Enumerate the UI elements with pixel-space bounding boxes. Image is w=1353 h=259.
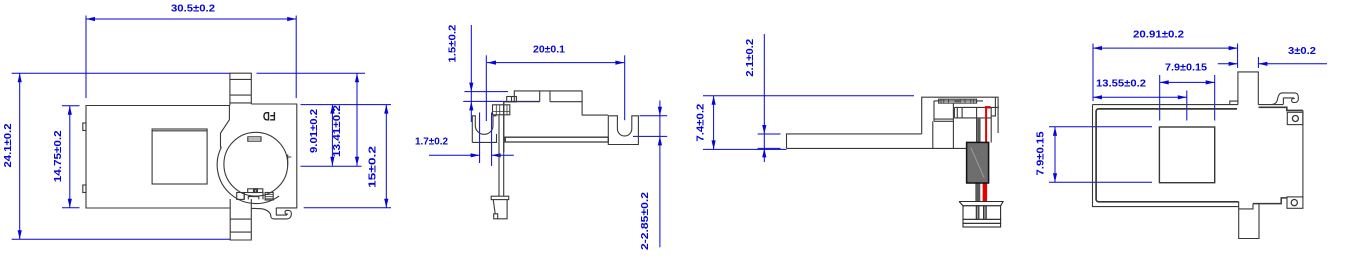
extension line bottom y239.3: [12, 238, 231, 240]
svg-text:1.7±0.2: 1.7±0.2: [415, 137, 448, 148]
screw hole bottom: [1291, 200, 1297, 206]
inner square: [152, 129, 207, 184]
dimension 14.75 ticks: [62, 106, 80, 208]
dimension 13.41±0.2 line: [356, 73, 358, 166]
terminal bracket inner: [248, 197, 258, 200]
extension 30.5 left: [85, 16, 87, 99]
svg-text:1.5±0.2: 1.5±0.2: [448, 24, 459, 62]
left bump upper: [83, 123, 86, 131]
hook inner: [276, 208, 287, 215]
extension 1.7 left: [479, 113, 481, 164]
dimension 2.1 shaft between ticks: [763, 134, 765, 148]
red wire cap: [985, 106, 991, 108]
terminal bracket outer: [244, 193, 263, 200]
circle right flat and tick: [288, 154, 292, 165]
bump left of top tab: [1230, 101, 1238, 105]
heat shrink sleeve: [967, 142, 989, 183]
body outline: [86, 106, 230, 209]
connector bottom strips: [963, 219, 1001, 223]
extension 2.85 top y116.3: [640, 115, 668, 117]
dimension 7.9±0.15 vertical line: [1054, 127, 1056, 183]
svg-text:3±0.2: 3±0.2: [1288, 46, 1316, 57]
dimension 1.5±0.2 arrows: [470, 25, 472, 92]
terminal top plate: [248, 189, 263, 193]
left bump lower: [83, 185, 86, 193]
sleeve highlight: [971, 148, 984, 178]
top square pair: [507, 97, 517, 102]
extension 7.9 left: [1159, 75, 1161, 121]
extension line top of tab y73.2: [12, 72, 365, 74]
extension 2.85 bottom y135.5: [633, 135, 667, 137]
outer outline left/top/bottom: [1093, 105, 1239, 207]
terminal notch: [254, 189, 258, 193]
extension 7.9v top y126.8: [1049, 126, 1152, 128]
dimension 20±0.1 line: [487, 62, 624, 64]
screw boss top: [1287, 112, 1303, 124]
dimension 7.9±0.15 line: [1160, 81, 1215, 83]
svg-text:15±0.2: 15±0.2: [368, 145, 379, 188]
screw hole top: [1292, 116, 1298, 122]
housing outline: [922, 97, 998, 134]
dimension 15±0.2 line: [385, 105, 387, 208]
inner square double top line: [152, 130, 207, 132]
extension tab left x1237.6: [1237, 44, 1239, 69]
extension 30.5 right: [295, 16, 297, 99]
svg-text:FD: FD: [263, 109, 276, 121]
screw boss bottom: [1287, 197, 1303, 208]
slot near circle top: [248, 137, 261, 141]
red wire: [985, 108, 987, 202]
gray wire lower segment: [975, 183, 980, 202]
dimension 3±0.2 tails: [1218, 63, 1238, 65]
extension 13.55 right (square centre): [1186, 91, 1188, 121]
extension 7.9v bottom y182.3: [1049, 181, 1152, 183]
extension 7.9 right: [1214, 75, 1216, 121]
extension y91.6: [464, 91, 508, 93]
terminal left square: [237, 193, 245, 200]
terminal screw: [254, 190, 256, 192]
inner top line right portion (thick): [1259, 107, 1303, 110]
extension y95.8: [703, 95, 914, 97]
bottom tab with notch: [1239, 202, 1259, 239]
inner rounded rect: [1096, 109, 1239, 202]
svg-text:24.1±0.2: 24.1±0.2: [3, 123, 14, 167]
pin crossbar: [491, 196, 509, 199]
top hook outer: [1272, 93, 1298, 105]
housing left step: [221, 106, 230, 148]
dimension 9.01±0.2 line: [331, 105, 333, 166]
right ear with U notch: [608, 116, 638, 145]
body outline: [504, 91, 609, 152]
svg-text:14.75±0.2: 14.75±0.2: [53, 130, 64, 183]
dimension 2.1 ticks: [758, 134, 781, 148]
svg-text:20.91±0.2: 20.91±0.2: [1133, 29, 1184, 40]
svg-text:7.4±0.2: 7.4±0.2: [696, 103, 707, 141]
extension 1.7 right: [491, 113, 493, 167]
extension 20 right: [624, 55, 626, 120]
dimension 1.7±0.2 arrows: [429, 154, 480, 156]
dimension 13.55±0.2 line: [1093, 96, 1187, 98]
gray wire: [977, 118, 980, 183]
right extension y207.7: [304, 207, 391, 209]
pin boot: [493, 200, 507, 219]
top tab: [230, 73, 251, 105]
dimension 30.5±0.2 line: [86, 18, 296, 20]
connector body: [963, 206, 1001, 220]
svg-text:7.9±0.15: 7.9±0.15: [1165, 62, 1207, 73]
dimension 20.91±0.2 line: [1093, 47, 1238, 49]
right extension y166.2: [301, 165, 362, 167]
dimension 2.85 shaft between ticks: [659, 116, 661, 137]
left ear with U notch: [472, 116, 496, 143]
top hook inner: [1283, 98, 1294, 104]
right extension y104.6: [301, 104, 392, 106]
hook outer: [252, 208, 292, 219]
connector flange: [959, 202, 1003, 206]
dimension 14.75±0.2 line: [69, 106, 71, 208]
right edge: [1302, 110, 1304, 198]
dimension 24.1±0.2 line: [19, 73, 21, 239]
terminal right hatch block: [265, 193, 273, 201]
flat bar: [787, 134, 972, 149]
dimension 2.1±0.2 arrows: [763, 34, 765, 134]
internal line y100.9: [934, 100, 983, 102]
svg-text:2-2.85±0.2: 2-2.85±0.2: [640, 191, 651, 250]
ribbed dark cell: [955, 99, 960, 103]
ribbed strip: [939, 99, 977, 103]
lens circle: [224, 132, 288, 196]
extension tab right x1258.4: [1257, 57, 1259, 68]
body bottom plate: [504, 137, 609, 142]
plate / pin double line: [499, 102, 504, 196]
red wire lower segment: [983, 183, 987, 202]
housing outer arc: [217, 147, 279, 203]
top edge right of tab: [1258, 104, 1283, 106]
svg-text:2.1±0.2: 2.1±0.2: [745, 38, 756, 76]
svg-text:30.5±0.2: 30.5±0.2: [171, 3, 215, 14]
bottom edge right of tab: [1253, 198, 1287, 204]
bottom tab: [230, 199, 251, 240]
dimension 7.4±0.2 line: [713, 96, 715, 150]
inner sensor square: [1159, 127, 1214, 183]
svg-text:9.01±0.2: 9.01±0.2: [309, 109, 320, 153]
extension 20.91 left (shared with 13.55): [1092, 44, 1094, 102]
dimension 1.5 shaft between ticks: [470, 92, 472, 102]
hatch block: [493, 105, 510, 115]
extension y101.8: [463, 100, 539, 102]
connector pin bars: [976, 206, 979, 220]
extension 20 left: [485, 55, 487, 121]
svg-text:13.55±0.2: 13.55±0.2: [1096, 78, 1146, 89]
top tab: [1238, 72, 1258, 105]
svg-text:7.9±0.15: 7.9±0.15: [1036, 131, 1047, 175]
svg-text:20±0.1: 20±0.1: [533, 44, 565, 55]
dimension 2-2.85±0.2 arrows: [659, 101, 661, 116]
svg-text:13.41±0.2: 13.41±0.2: [332, 104, 343, 157]
housing top and right edge: [251, 104, 296, 208]
arm box lines: [934, 107, 999, 142]
extension y149.4: [703, 148, 787, 150]
internal verticals: [933, 101, 954, 149]
